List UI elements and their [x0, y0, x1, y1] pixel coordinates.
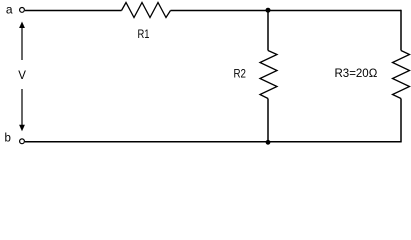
bottom wire — [25, 141, 401, 143]
svg-text:b: b — [5, 133, 11, 145]
wire a to R1 — [25, 10, 122, 12]
wire R1 to top-right corner — [171, 10, 402, 12]
svg-text:V: V — [18, 70, 26, 82]
voltage arrow lower segment — [21, 89, 23, 125]
svg-text:R1: R1 — [138, 28, 150, 41]
svg-text:R3=20Ω: R3=20Ω — [335, 68, 378, 80]
svg-text:a: a — [6, 2, 13, 16]
terminal a — [20, 7, 25, 12]
wire top junction to R2 — [267, 11, 269, 51]
wire top-right corner to R3 — [400, 10, 402, 51]
terminal b — [20, 139, 25, 144]
wire R2 to bottom junction — [267, 99, 269, 142]
resistor R3 — [393, 51, 410, 99]
resistor R1 — [122, 3, 171, 18]
svg-text:R2: R2 — [234, 68, 247, 81]
label R2 — [234, 68, 247, 81]
label R1 — [138, 28, 150, 41]
resistor R2 — [260, 51, 277, 99]
wire R3 to bottom-right corner — [400, 99, 402, 143]
voltage arrow upper head — [19, 22, 25, 29]
junction bottom node — [266, 140, 271, 145]
junction top node — [266, 8, 271, 13]
voltage arrow lower head — [19, 125, 25, 132]
voltage arrow upper segment — [21, 27, 23, 61]
